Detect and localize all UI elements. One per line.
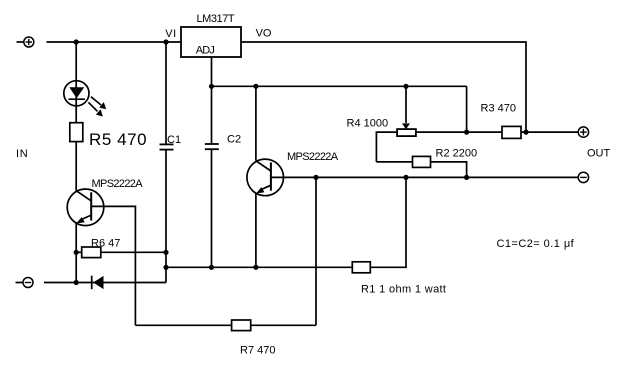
svg-text:R1 1 ohm 1 watt: R1 1 ohm 1 watt: [361, 284, 446, 296]
terminal + output: [578, 127, 588, 137]
wire rail2 drop to R4 R3 line: [466, 86, 468, 132]
wire Q2 emitter down: [255, 194, 257, 268]
capacitor C1: [160, 144, 174, 149]
terminal + input: [17, 37, 34, 47]
svg-text:R2 2200: R2 2200: [436, 148, 478, 160]
node junction C1 emitter line: [163, 265, 168, 270]
svg-text:OUT: OUT: [587, 148, 611, 160]
wire R7 right: [251, 324, 316, 326]
node junction ADJ C2: [209, 84, 214, 89]
diode D2: [92, 276, 104, 290]
wire C1 vertical top: [165, 42, 167, 144]
wire Q1 emitter down: [75, 222, 77, 283]
wire ADJ pin: [211, 57, 213, 86]
node junction VO drop: [523, 130, 528, 135]
svg-text:R3 470: R3 470: [481, 103, 516, 115]
capacitor C2: [205, 144, 219, 149]
node junction R1 riser: [403, 175, 408, 180]
wire R4 right: [416, 131, 467, 133]
wire R5 to Q1 collector: [75, 142, 77, 191]
wire R3 right to out: [521, 131, 578, 133]
node junction C2 emitter line: [209, 265, 214, 270]
node junction emitter minus rail: [74, 280, 79, 285]
svg-text:MPS2222A: MPS2222A: [92, 178, 144, 190]
wire top rail left: [47, 41, 182, 43]
svg-text:IN: IN: [16, 148, 28, 160]
potentiometer R4 body: [397, 129, 416, 136]
wire C1 vertical bottom: [165, 150, 167, 283]
wire emitter line horizontal: [166, 266, 352, 268]
node junction R7 riser: [313, 175, 318, 180]
wire R6 left: [76, 251, 82, 253]
svg-text:C2: C2: [227, 134, 241, 146]
transistor Q2 MPS2222A: [247, 159, 284, 196]
svg-text:C1: C1: [167, 134, 181, 146]
svg-text:R7 470: R7 470: [240, 345, 275, 357]
wire R7 left: [135, 324, 231, 326]
wire R4 left: [376, 132, 397, 162]
wire rail2 horizontal: [212, 85, 467, 87]
node junction R6 C1 line: [163, 250, 168, 255]
wire Q2 collector: [255, 86, 257, 160]
node junction C1 top: [163, 39, 168, 44]
wire C2 vertical top: [211, 86, 213, 144]
LED D1: [64, 81, 106, 117]
svg-text:VO: VO: [256, 27, 272, 39]
terminal - output: [578, 172, 588, 182]
wire R1 right: [370, 177, 406, 267]
wire R4 wiper arrow: [402, 86, 410, 129]
svg-text:C1=C2= 0.1 μf: C1=C2= 0.1 μf: [497, 238, 575, 250]
op-amp U1 LM317T body: [181, 27, 241, 57]
wire C2 vertical bottom: [211, 149, 213, 267]
node junction LED branch: [74, 39, 79, 44]
node junction Q2 collector: [253, 84, 258, 89]
resistor R2 body: [413, 156, 431, 167]
node junction Q2 emitter line: [253, 265, 258, 270]
terminal - input: [16, 278, 34, 288]
svg-text:MPS2222A: MPS2222A: [287, 151, 339, 163]
wire R2 right: [431, 162, 467, 178]
resistor R1 body: [352, 262, 370, 273]
resistor R5 body: [70, 123, 83, 142]
wire Q1 base: [91, 206, 135, 325]
node junction emitter R6: [74, 250, 79, 255]
svg-text:ADJ: ADJ: [196, 45, 215, 57]
node junction R4 wiper: [403, 84, 408, 89]
svg-text:R4 1000: R4 1000: [347, 118, 389, 130]
wire minus input rail: [44, 282, 166, 284]
wire LED branch top: [75, 42, 77, 123]
wire R3 left: [467, 131, 502, 133]
resistor R7 body: [232, 320, 251, 331]
resistor R6 body: [82, 247, 101, 258]
node junction R4 R3: [464, 130, 469, 135]
svg-text:R6 47: R6 47: [91, 238, 120, 250]
svg-text:LM317T: LM317T: [197, 13, 235, 25]
wire R7 riser: [315, 177, 317, 325]
svg-text:R5 470: R5 470: [89, 130, 147, 149]
resistor R3 body: [502, 126, 521, 138]
wire R2 left: [376, 161, 412, 163]
wire VO top rail right: [241, 42, 526, 132]
wire R6 right: [101, 251, 166, 253]
node junction R2 drop: [464, 175, 469, 180]
wire base OUT minus line: [271, 176, 578, 178]
svg-text:VI: VI: [165, 28, 176, 40]
transistor Q1 MPS2222A: [67, 189, 104, 226]
